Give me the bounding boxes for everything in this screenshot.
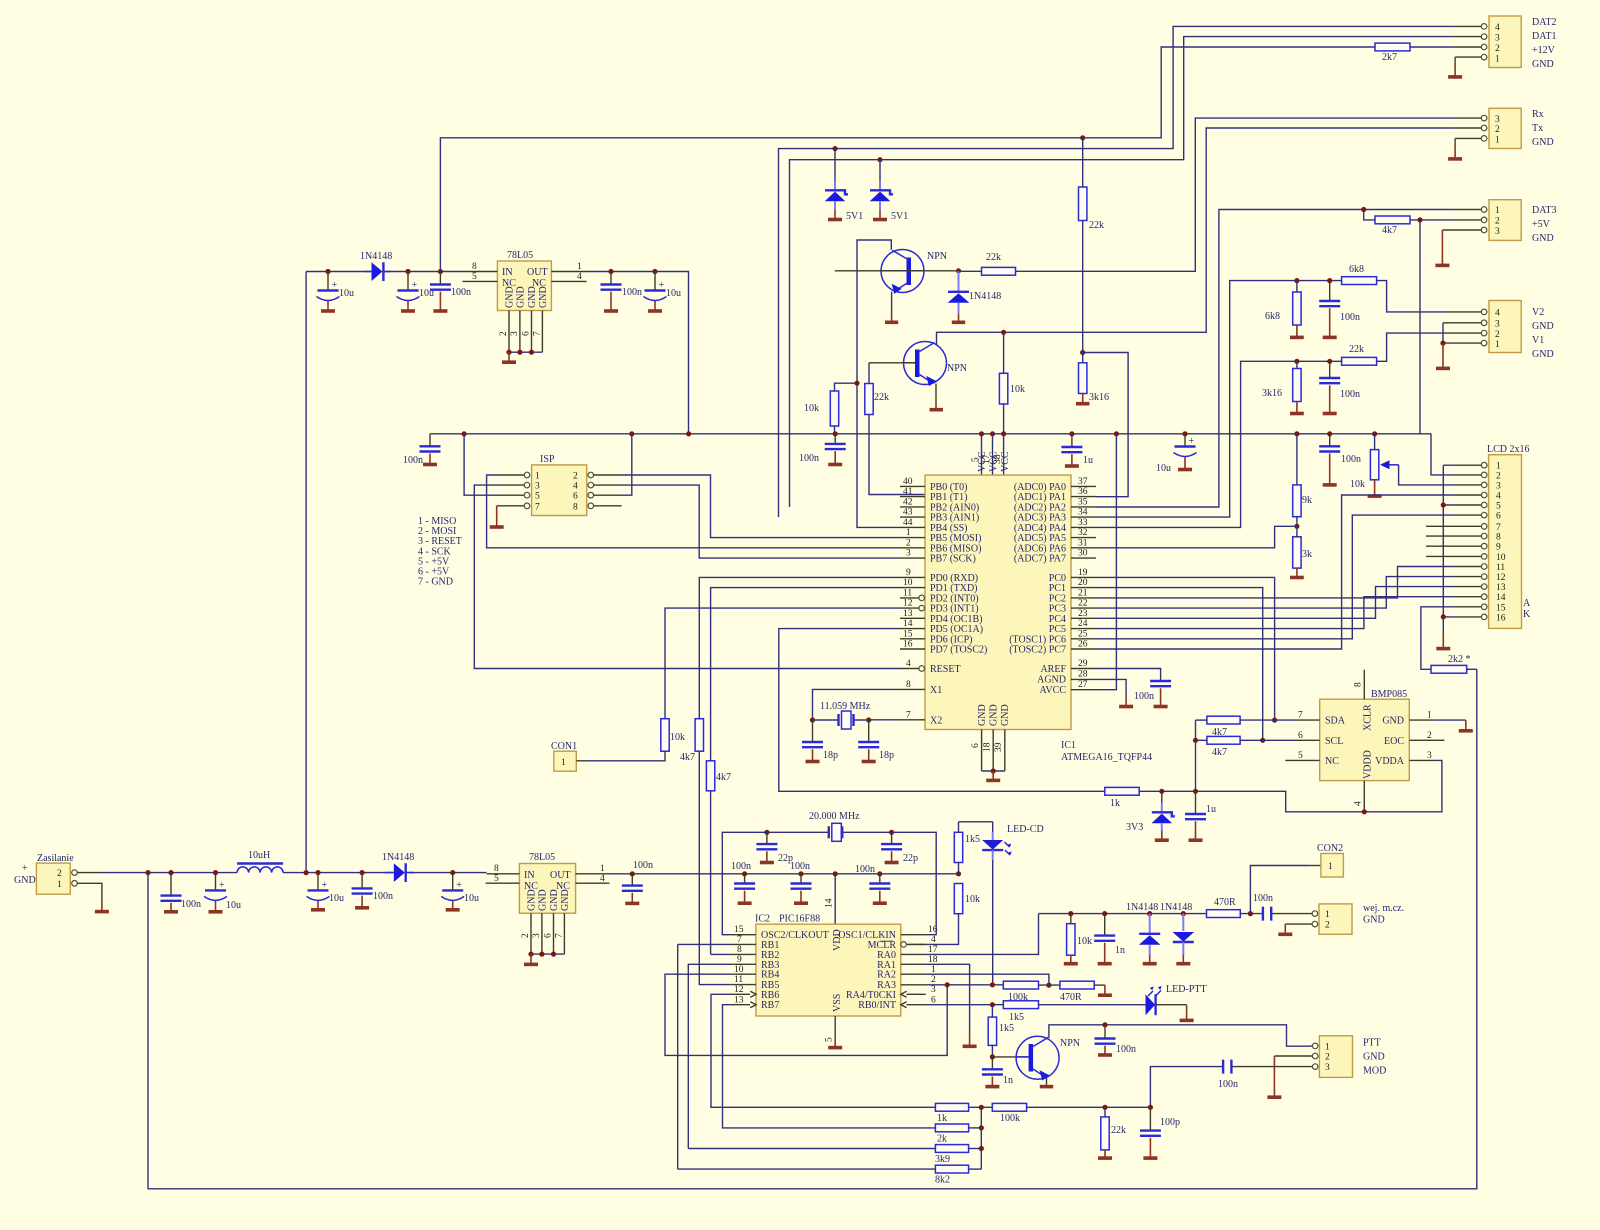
svg-text:3: 3 [510,331,520,336]
svg-text:100n: 100n [633,860,653,871]
svg-text:3V3: 3V3 [1126,822,1143,833]
wire RB2 from PD1 [711,953,731,955]
svg-text:22k: 22k [986,252,1001,263]
wire Q3 collector rail [1049,1025,1311,1046]
svg-text:7: 7 [1496,523,1501,533]
svg-text:15: 15 [734,925,744,935]
svg-text:5: 5 [472,272,477,282]
wire Q2 emitter + ground [935,384,937,403]
svg-text:ATMEGA16_TQFP44: ATMEGA16_TQFP44 [1061,752,1152,763]
transistor Q2 NPN [904,342,968,387]
resistor 2k2 backlight [1431,654,1477,673]
svg-text:19: 19 [1078,568,1088,578]
wire DAT2 rail [779,26,1454,517]
svg-text:3 - RESET: 3 - RESET [418,536,462,547]
svg-text:13: 13 [903,609,913,619]
diode D1 1N4148 [360,251,392,281]
IC IC1 ATMEGA16 [925,451,1152,763]
svg-text:1: 1 [1495,340,1500,350]
svg-text:8: 8 [1353,682,1363,687]
svg-text:10u: 10u [666,288,681,299]
capacitor 1u [1061,434,1093,466]
resistor 1k5 vertical base [988,1005,1014,1057]
wire summing row [969,1106,1151,1108]
svg-text:78L05: 78L05 [529,852,555,863]
connector PTT [1311,1036,1386,1078]
svg-text:7: 7 [555,933,565,938]
wire PC0 to SDA [1096,577,1275,720]
svg-text:10k: 10k [1077,936,1092,947]
wire LCD12 from PC3 [1096,577,1454,609]
svg-text:100n: 100n [1116,1044,1136,1055]
junction [1001,330,1006,335]
wire pin1 to ground [77,883,102,903]
svg-text:33: 33 [1078,518,1088,528]
svg-text:30: 30 [1078,549,1088,559]
wire PC1 to SCL [1096,588,1263,741]
capacitor 100n collector [1095,1025,1137,1055]
svg-text:MOD: MOD [1363,1066,1386,1077]
svg-text:100n: 100n [373,891,393,902]
svg-text:8: 8 [737,945,742,955]
svg-text:100n: 100n [790,861,810,872]
svg-text:12: 12 [1496,573,1506,583]
svg-text:GND: GND [1532,349,1554,360]
svg-text:4k7: 4k7 [716,772,731,783]
svg-text:+12V: +12V [1532,45,1556,56]
svg-text:GND: GND [1532,59,1554,70]
capacitor 1n [1094,914,1125,964]
wire divider output to PA1 [1083,353,1128,497]
svg-text:3: 3 [906,549,911,559]
resistor 22k vertical bottom [1098,1107,1126,1158]
junction [1362,809,1367,814]
svg-text:4: 4 [600,874,605,884]
junction [764,830,769,835]
wire RA2 down [926,974,1049,985]
junction VDD [833,871,838,876]
svg-text:3: 3 [1495,115,1500,125]
svg-text:15: 15 [1496,603,1506,613]
IC1 right pin leads [1071,486,1096,689]
svg-text:9: 9 [906,568,911,578]
resistor 470R [1060,981,1112,1003]
svg-text:1u: 1u [1083,455,1093,466]
svg-text:SDA: SDA [1325,716,1346,727]
wire Q1 base [835,270,959,272]
resistor 100k [1003,981,1060,1003]
svg-text:5V1: 5V1 [846,211,863,222]
svg-text:18: 18 [928,955,938,965]
resistor 4k7 pullup SCL [1196,720,1297,758]
wire V2 gnd pins join [1442,323,1444,343]
resistor 22k vertical top [1079,138,1105,353]
svg-text:5: 5 [535,492,540,502]
svg-text:V1: V1 [1532,335,1544,346]
ground DAT3 [1441,230,1443,264]
capacitor 10u polar [644,272,682,312]
junction [630,871,635,876]
wire LCD13 from PC4 [1096,587,1454,619]
junction [1102,1022,1107,1027]
wire RB4 to RA3 [665,974,947,1055]
svg-text:3: 3 [1427,751,1432,761]
junction [956,871,961,876]
svg-text:8: 8 [906,680,911,690]
junction [1417,217,1422,222]
svg-text:1k: 1k [937,1113,947,1124]
connector DAT2 [1454,16,1557,70]
header ISP [497,454,622,516]
svg-text:LCD 2x16: LCD 2x16 [1487,444,1530,455]
svg-text:22k: 22k [874,392,889,403]
junction [652,269,657,274]
capacitor 10u polar [1156,434,1197,474]
svg-text:2k2 *: 2k2 * [1448,654,1471,665]
header CON2 [1250,843,1343,914]
junction [1147,911,1152,916]
svg-text:1u: 1u [1206,804,1216,815]
svg-text:2k: 2k [937,1134,947,1145]
svg-text:2: 2 [931,975,936,985]
wire Q1 emitter + ground [891,292,893,315]
wire up to top regulator rail [305,272,307,873]
wire LCD1/5/16 ground vertical [1443,465,1454,617]
wire down to bottom loop [147,873,149,1190]
junction [686,431,691,436]
svg-text:1: 1 [1427,711,1432,721]
capacitor 100n series input [1253,893,1312,921]
svg-text:3: 3 [1495,320,1500,330]
capacitor 100n [430,272,471,312]
svg-text:100n: 100n [731,861,751,872]
wire +5V PIC rail [609,873,958,875]
junction [979,1105,984,1110]
svg-text:4k7: 4k7 [1212,747,1227,758]
wire ISP3 RESET [474,485,900,668]
svg-text:10: 10 [1496,553,1506,563]
capacitor 100n rail left [403,434,441,466]
svg-text:18p: 18p [823,750,838,761]
svg-text:DAT3: DAT3 [1532,205,1556,216]
junction [1294,431,1299,436]
svg-text:VDDD: VDDD [1363,750,1374,779]
svg-text:+: + [412,280,418,291]
svg-text:1N4148: 1N4148 [1126,902,1158,913]
wire pot wiper to LCD3 [1399,465,1455,485]
junction [1193,738,1198,743]
junction [1248,911,1253,916]
zener diode 5V1 [825,149,864,222]
svg-text:1N4148: 1N4148 [382,852,414,863]
junction VCC pins [979,431,984,436]
svg-text:3: 3 [1496,481,1501,491]
svg-text:3: 3 [931,985,936,995]
svg-text:wej. m.cz.: wej. m.cz. [1363,903,1404,914]
svg-text:+: + [1189,436,1195,447]
junction [1080,350,1085,355]
svg-text:1: 1 [906,528,911,538]
svg-text:AREF: AREF [1040,664,1066,675]
svg-text:8: 8 [472,262,477,272]
wire +12V rail to DAT2 connector [440,47,1375,272]
svg-text:7: 7 [535,502,540,512]
wire VCC pins [982,434,1004,475]
capacitor 22p [756,832,793,864]
svg-text:NPN: NPN [947,363,967,374]
svg-text:4: 4 [573,482,578,492]
svg-text:1: 1 [1495,55,1500,65]
junction [877,157,882,162]
svg-text:43: 43 [903,508,913,518]
capacitor 100n [855,864,890,903]
svg-text:1n: 1n [1115,945,1125,956]
svg-text:29: 29 [1078,659,1088,669]
svg-text:LED-CD: LED-CD [1007,824,1044,835]
svg-text:12: 12 [734,985,744,995]
svg-text:100n: 100n [403,455,423,466]
svg-text:3k9: 3k9 [935,1154,950,1165]
IC1 bottom GND pins [971,730,1005,781]
wire ISP1 MISO to PB6 [487,475,900,548]
resistor 470R series [1207,897,1262,918]
svg-text:6: 6 [1298,731,1303,741]
svg-text:10u: 10u [329,893,344,904]
capacitor 1u [1185,791,1216,840]
junction [1148,1105,1153,1110]
svg-text:(TOSC2) PC7: (TOSC2) PC7 [1009,645,1066,656]
svg-text:CON1: CON1 [551,741,577,752]
capacitor 100n [161,873,202,912]
svg-text:100n: 100n [622,287,642,298]
svg-text:14: 14 [1496,593,1506,603]
svg-text:3: 3 [535,482,540,492]
svg-text:GND: GND [977,704,988,726]
junction AVCC [1114,431,1119,436]
svg-text:10k: 10k [670,732,685,743]
wire DAT3 to PA2 [1096,210,1454,508]
resistor 9k vertical [1293,434,1312,527]
wire DAT1 rail [790,37,1454,507]
svg-text:DAT1: DAT1 [1532,31,1556,42]
svg-text:+: + [456,880,462,891]
wire PD3 to pullup [665,608,900,719]
svg-text:100n: 100n [181,899,201,910]
capacitor 10u polar [397,272,435,312]
svg-text:BMP085: BMP085 [1371,689,1407,700]
svg-text:GND: GND [989,704,1000,726]
capacitor 100n [622,860,653,903]
resistor 3k16 vertical [1076,353,1109,404]
wire LCD6 from PC6 [1096,515,1454,639]
junction [1080,135,1085,140]
svg-text:5: 5 [494,874,499,884]
svg-text:GND: GND [505,286,516,308]
junction [1102,911,1107,916]
svg-text:22: 22 [1078,599,1088,609]
connector wej m.cz. [1312,903,1404,934]
svg-text:2: 2 [1495,44,1500,54]
capacitor 100n [1319,281,1360,338]
junction [798,871,803,876]
svg-text:16: 16 [1496,613,1506,623]
connector DAT3 [1442,200,1556,244]
svg-text:RA4/T0CKI: RA4/T0CKI [846,990,896,1001]
svg-text:2: 2 [57,869,62,879]
svg-text:100n: 100n [1253,893,1273,904]
junction [877,871,882,876]
svg-text:35: 35 [1078,498,1088,508]
resistor 3k vertical [1290,526,1312,577]
inductor L1 10uH [237,850,283,873]
LED LED-PTT [1146,984,1207,1020]
wire crystal to OSC1 [892,832,937,934]
svg-text:12: 12 [903,599,913,609]
svg-text:26: 26 [1078,640,1088,650]
svg-text:100n: 100n [855,864,875,875]
resistor 10k vertical [804,383,857,434]
svg-text:1k: 1k [1110,798,1120,809]
voltage regulator IC3 78L05 [486,852,610,964]
connector V2/V1 [1443,301,1554,361]
junction [1068,911,1073,916]
svg-text:1: 1 [57,880,62,890]
resistor ladder 1k [935,1103,968,1124]
junction [990,1054,995,1059]
svg-text:2: 2 [906,538,911,548]
capacitor 100n [1319,361,1360,413]
junction [1294,524,1299,529]
svg-text:28: 28 [1078,669,1088,679]
svg-text:10k: 10k [965,894,980,905]
svg-text:22k: 22k [1089,220,1104,231]
junction [854,381,859,386]
ground V2 [1442,343,1444,367]
svg-text:6k8: 6k8 [1265,311,1280,322]
resistor 4k7 pullup SDA [1196,716,1297,738]
svg-text:15: 15 [903,629,913,639]
svg-text:VCC: VCC [1000,451,1011,472]
wire AGND to ground [1096,679,1126,697]
svg-text:RB7: RB7 [761,1000,779,1011]
wire pin2 to rail [77,872,100,874]
svg-text:9k: 9k [1302,495,1312,506]
svg-text:10: 10 [903,578,913,588]
svg-text:VCC: VCC [989,451,1000,472]
svg-text:VDD: VDD [832,929,843,951]
VSS pin5 ground [834,1016,836,1038]
svg-text:1: 1 [1325,1042,1330,1052]
svg-text:42: 42 [903,498,913,508]
svg-text:OUT: OUT [550,870,571,881]
svg-text:2: 2 [1495,217,1500,227]
resistor 100k bottom [992,1103,1026,1124]
svg-text:9: 9 [1496,543,1501,553]
svg-text:8: 8 [494,864,499,874]
svg-text:7: 7 [533,331,543,336]
header CON1 [551,741,585,771]
svg-text:+5V: +5V [1532,219,1551,230]
connector Rx/Tx [1454,108,1554,148]
zener diode 3V3 [1126,791,1175,840]
resistor 22k vertical base [865,363,925,495]
diode 1N4148 clamp b [1160,902,1194,964]
svg-text:+: + [659,280,665,291]
wire RA3 [926,984,1004,986]
junction [315,870,320,875]
IC1 left pin leads [900,486,925,719]
junction [1102,1105,1107,1110]
capacitor 100n MOD series [1150,1060,1312,1108]
svg-text:3k16: 3k16 [1089,392,1109,403]
junction [325,269,330,274]
svg-text:IC1: IC1 [1061,740,1076,751]
junction [1260,738,1265,743]
wire LCD2 from +5V rail [1431,434,1454,475]
wire X1 to crystal [813,689,901,720]
resistor 22k horizontal V1 [1096,333,1445,527]
svg-text:2: 2 [1495,125,1500,135]
svg-text:10k: 10k [804,403,819,414]
wire PD1 down [711,588,900,761]
wire top regulator input rail [306,272,688,434]
svg-text:2: 2 [521,933,531,938]
junction [608,269,613,274]
svg-text:Rx: Rx [1532,109,1544,120]
svg-text:5V1: 5V1 [891,211,908,222]
wire PD0 down [699,577,900,718]
svg-text:1n: 1n [1003,1075,1013,1086]
svg-text:13: 13 [734,995,744,1005]
svg-text:+: + [219,880,225,891]
svg-text:VDDA: VDDA [1375,756,1405,767]
svg-text:GND: GND [515,286,526,308]
svg-text:NC: NC [1325,756,1339,767]
svg-text:GND: GND [1363,1052,1385,1063]
svg-text:5: 5 [825,1037,835,1042]
svg-text:1: 1 [1325,910,1330,920]
svg-text:17: 17 [928,945,938,955]
svg-text:6: 6 [971,743,981,748]
svg-text:3: 3 [1325,1063,1330,1073]
svg-text:GND: GND [527,286,538,308]
ground Rx [1454,138,1456,145]
resistor 6k8 vertical [1265,281,1304,338]
ground LCD [1442,617,1444,634]
svg-text:EOC: EOC [1384,736,1404,747]
LED LED-CD [959,822,1044,860]
svg-text:20: 20 [1078,578,1088,588]
svg-text:40: 40 [903,477,913,487]
capacitor 100n [731,861,755,903]
junction [1182,431,1187,436]
svg-text:22p: 22p [903,853,918,864]
svg-text:10u: 10u [226,900,241,911]
diode 1N4148 [948,271,1002,323]
junction [213,870,218,875]
svg-text:Tx: Tx [1532,123,1543,134]
svg-text:5: 5 [1496,502,1501,512]
connector X1 Zasilanie [14,853,77,894]
svg-text:1: 1 [1496,462,1501,472]
transistor Q3 NPN [992,1036,1080,1086]
svg-text:11: 11 [734,975,743,985]
svg-text:1: 1 [600,864,605,874]
svg-text:8k2: 8k2 [935,1175,950,1186]
wire RA1 to ground [926,964,970,1033]
svg-text:7 - GND: 7 - GND [418,577,453,588]
svg-text:6: 6 [1496,512,1501,522]
